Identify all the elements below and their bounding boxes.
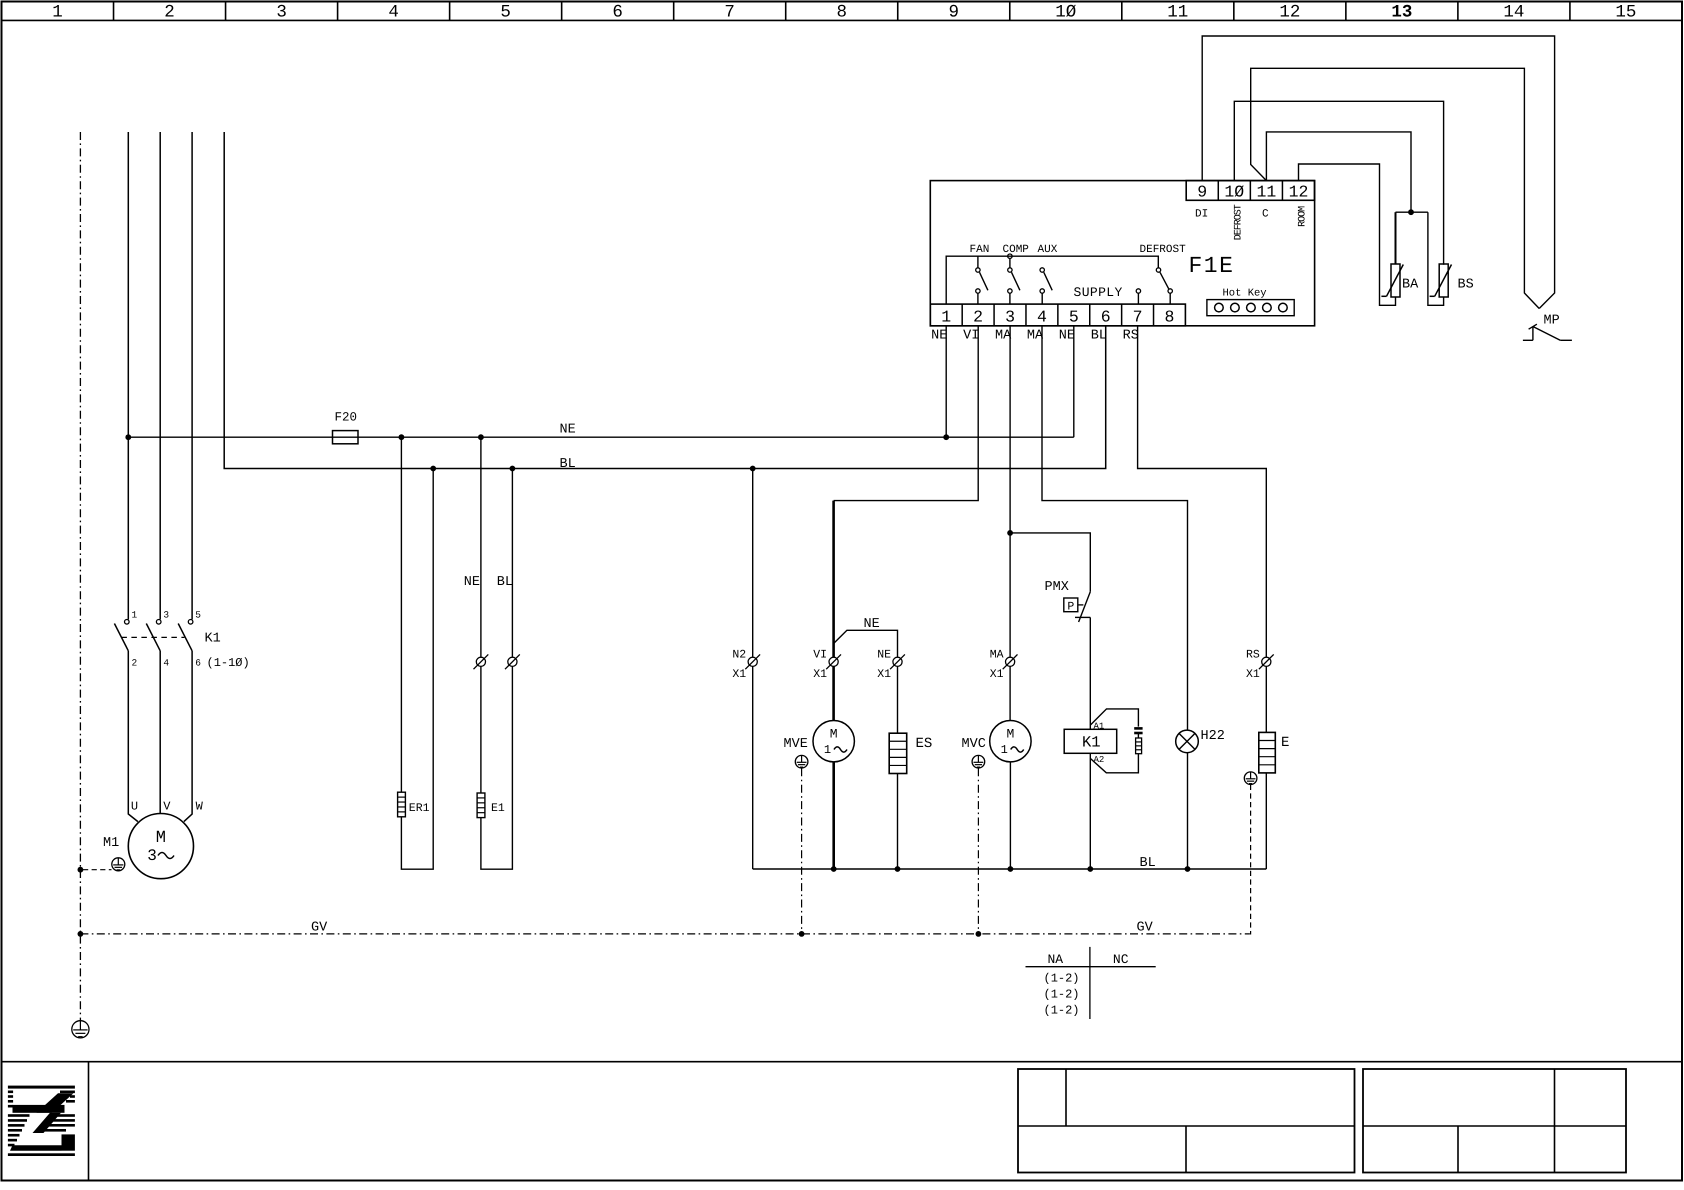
svg-text:3: 3 bbox=[1005, 308, 1015, 327]
terminal strip 9-12 bbox=[1186, 181, 1314, 202]
wire MVE to BL bus bbox=[832, 762, 835, 869]
wire terminal7 RS bbox=[1138, 326, 1267, 733]
svg-text:AUX: AUX bbox=[1038, 244, 1058, 256]
svg-text:ER1: ER1 bbox=[409, 802, 430, 815]
probe BS (NTC) bbox=[1430, 264, 1452, 297]
svg-text:2: 2 bbox=[973, 308, 983, 327]
svg-text:BL: BL bbox=[1140, 856, 1156, 871]
svg-text:7: 7 bbox=[1133, 308, 1143, 327]
svg-text:1: 1 bbox=[1001, 743, 1008, 757]
wire L3 to motor W bbox=[184, 651, 192, 822]
company logo bbox=[8, 1086, 75, 1156]
wire terminal4 MA to H22 bbox=[1042, 326, 1188, 730]
heater ER1 bbox=[398, 792, 406, 817]
svg-text:MP: MP bbox=[1544, 314, 1560, 329]
svg-text:NE: NE bbox=[1059, 329, 1075, 344]
svg-text:BL: BL bbox=[560, 457, 576, 472]
ground M1 PE bbox=[112, 858, 125, 871]
svg-text:W: W bbox=[196, 800, 204, 814]
svg-text:12: 12 bbox=[1279, 3, 1300, 23]
svg-text:NE: NE bbox=[464, 575, 480, 590]
ground MVC PE bbox=[972, 755, 985, 768]
wire MVC PE to GV bbox=[977, 768, 979, 934]
svg-text:V: V bbox=[163, 800, 171, 814]
wire NE branch to ES bbox=[834, 630, 898, 657]
wire snubber top bbox=[1090, 709, 1138, 727]
wire internal supply feed bbox=[946, 256, 1158, 304]
svg-text:1Ø: 1Ø bbox=[1055, 3, 1076, 23]
coil K1 bbox=[1064, 729, 1117, 753]
svg-text:NC: NC bbox=[1113, 952, 1129, 967]
svg-text:(1-1Ø): (1-1Ø) bbox=[207, 656, 250, 670]
contactor K1 main contacts bbox=[114, 610, 201, 669]
wire common to BS bottom bbox=[1428, 212, 1444, 305]
wire terminal2 VI bbox=[834, 326, 979, 501]
svg-text:U: U bbox=[131, 800, 138, 814]
svg-text:6: 6 bbox=[1101, 308, 1111, 327]
motor M1 3-phase bbox=[128, 814, 193, 879]
wire PMX branch bbox=[1010, 533, 1090, 592]
heater E bbox=[1259, 732, 1276, 773]
svg-text:SUPPLY: SUPPLY bbox=[1074, 285, 1123, 300]
heater E1 bbox=[477, 793, 485, 818]
svg-text:A1: A1 bbox=[1094, 722, 1105, 732]
svg-text:X1: X1 bbox=[813, 668, 827, 681]
connector BL/E1 bbox=[505, 654, 520, 669]
svg-text:VI: VI bbox=[813, 648, 827, 661]
wire terminal1 NE bbox=[945, 326, 947, 437]
wire M1 PE link bbox=[83, 869, 112, 871]
wire K1 coil to BL bus bbox=[1089, 753, 1091, 869]
svg-text:1: 1 bbox=[941, 308, 951, 327]
wire C (terminal 11 to probe common) bbox=[1266, 132, 1411, 212]
wire MVC to BL bus bbox=[1009, 762, 1011, 869]
svg-text:M1: M1 bbox=[103, 836, 119, 851]
svg-text:RS: RS bbox=[1246, 648, 1260, 661]
wire ER1 branch bbox=[399, 434, 405, 440]
wire C (terminal 11 to MP) bbox=[1251, 68, 1540, 308]
svg-text:BL: BL bbox=[497, 575, 513, 590]
svg-text:C: C bbox=[1262, 208, 1269, 220]
svg-text:1: 1 bbox=[52, 3, 63, 23]
relay contact FAN bbox=[976, 256, 988, 304]
svg-text:8: 8 bbox=[836, 3, 847, 23]
lamp H22 bbox=[1176, 730, 1199, 753]
svg-text:NE: NE bbox=[560, 423, 576, 438]
svg-text:PMX: PMX bbox=[1045, 580, 1069, 595]
svg-text:5: 5 bbox=[1069, 308, 1079, 327]
terminal strip 1-8 bbox=[930, 304, 1185, 326]
wire ES to BL bus bbox=[897, 774, 899, 870]
motor MVC bbox=[990, 721, 1031, 762]
connector VI bbox=[813, 648, 841, 681]
wire PMX to K1 coil bbox=[1089, 617, 1091, 729]
wire phase L1 bbox=[127, 132, 129, 619]
svg-text:4: 4 bbox=[163, 657, 169, 668]
wire E1 branch bbox=[478, 434, 484, 440]
connector RS bbox=[1246, 648, 1274, 681]
svg-text:GV: GV bbox=[1137, 921, 1154, 936]
ground MVE PE bbox=[795, 755, 808, 768]
svg-text:ROOM: ROOM bbox=[1298, 206, 1309, 227]
svg-text:NE: NE bbox=[864, 617, 880, 632]
svg-text:N2: N2 bbox=[732, 648, 746, 661]
wire terminal5 NE bbox=[1073, 326, 1075, 437]
wire DI (terminal 9 to MP) bbox=[1202, 36, 1554, 309]
wire NE bus bbox=[128, 436, 1074, 438]
svg-text:15: 15 bbox=[1615, 3, 1636, 23]
wire terminal3 MA bbox=[1009, 326, 1011, 657]
ground PE main bbox=[72, 1021, 89, 1038]
svg-text:GV: GV bbox=[311, 921, 328, 936]
svg-text:7: 7 bbox=[724, 3, 735, 23]
svg-text:X1: X1 bbox=[732, 668, 746, 681]
svg-text:6: 6 bbox=[612, 3, 623, 23]
wire ROOM (terminal 12 to BA) bbox=[1299, 164, 1396, 305]
svg-text:9: 9 bbox=[948, 3, 959, 23]
svg-text:1: 1 bbox=[132, 610, 138, 621]
connector N2 bbox=[732, 648, 760, 681]
switch MP (door microswitch) bbox=[1523, 324, 1572, 340]
svg-text:NA: NA bbox=[1048, 952, 1064, 967]
svg-text:NE: NE bbox=[931, 329, 947, 344]
svg-text:BL: BL bbox=[1091, 329, 1107, 344]
node probe common junction bbox=[1408, 209, 1414, 215]
svg-text:3: 3 bbox=[163, 610, 169, 621]
svg-text:Hot Key: Hot Key bbox=[1223, 288, 1267, 300]
wire PE dash-dot riser bbox=[79, 132, 81, 1021]
svg-text:13: 13 bbox=[1391, 3, 1412, 23]
svg-text:5: 5 bbox=[195, 610, 201, 621]
svg-text:M: M bbox=[1006, 727, 1014, 742]
svg-text:COMP: COMP bbox=[1003, 244, 1030, 256]
connector NE/ES bbox=[877, 648, 905, 681]
svg-text:12: 12 bbox=[1289, 183, 1309, 202]
svg-text:P: P bbox=[1067, 600, 1074, 613]
controller F1E box bbox=[930, 181, 1314, 326]
wire snubber bottom bbox=[1090, 754, 1138, 773]
svg-text:BS: BS bbox=[1458, 278, 1474, 293]
svg-text:6: 6 bbox=[195, 657, 201, 668]
svg-text:MVE: MVE bbox=[784, 737, 808, 752]
svg-text:DI: DI bbox=[1195, 208, 1208, 220]
svg-text:F20: F20 bbox=[335, 411, 358, 425]
wire N (4th riser to BL bus) bbox=[224, 132, 1105, 469]
svg-text:MA: MA bbox=[990, 648, 1004, 661]
svg-text:M: M bbox=[830, 727, 838, 742]
svg-text:X1: X1 bbox=[1246, 668, 1260, 681]
svg-text:E: E bbox=[1281, 735, 1289, 751]
labels under terminals bbox=[931, 329, 1139, 344]
svg-text:FAN: FAN bbox=[970, 244, 990, 256]
svg-text:X1: X1 bbox=[877, 668, 891, 681]
resistor snubber bbox=[1136, 733, 1142, 754]
relay contact DEFROST bbox=[1136, 268, 1172, 304]
svg-text:14: 14 bbox=[1503, 3, 1524, 23]
svg-text:4: 4 bbox=[1037, 308, 1047, 327]
capacitor snubber bbox=[1134, 728, 1142, 733]
wire GV bus bbox=[80, 933, 1249, 935]
wire L2 to motor V bbox=[159, 651, 161, 814]
svg-text:ES: ES bbox=[916, 736, 933, 752]
pressure switch PMX bbox=[1064, 592, 1091, 622]
svg-text:K1: K1 bbox=[205, 632, 221, 647]
svg-text:MVC: MVC bbox=[962, 737, 986, 752]
wire BL bottom bus bbox=[753, 868, 1267, 870]
svg-text:F1E: F1E bbox=[1189, 253, 1235, 279]
Hot Key button panel bbox=[1207, 300, 1294, 316]
svg-text:VI: VI bbox=[963, 329, 979, 344]
svg-text:9: 9 bbox=[1197, 183, 1207, 202]
svg-text:X1: X1 bbox=[990, 668, 1004, 681]
wire DEFROST (terminal 10 to BS) bbox=[1234, 101, 1443, 264]
svg-text:2: 2 bbox=[132, 657, 138, 668]
svg-text:K1: K1 bbox=[1082, 734, 1101, 752]
auxiliary contact table NA/NC bbox=[1026, 947, 1156, 1019]
svg-text:M: M bbox=[156, 829, 166, 848]
wire N2 branch bbox=[750, 466, 756, 472]
svg-text:(1-2): (1-2) bbox=[1044, 971, 1080, 985]
relay contact COMP bbox=[1008, 254, 1020, 304]
heater ES bbox=[889, 733, 907, 773]
relay contact AUX bbox=[1040, 268, 1052, 304]
wire L1 to motor U bbox=[128, 651, 138, 822]
svg-text:BA: BA bbox=[1402, 278, 1419, 293]
svg-text:E1: E1 bbox=[491, 802, 505, 815]
fuse F20 bbox=[333, 431, 359, 444]
wire phase L3 bbox=[191, 132, 193, 619]
svg-text:NE: NE bbox=[877, 648, 891, 661]
motor MVE bbox=[813, 721, 854, 762]
svg-text:(1-2): (1-2) bbox=[1044, 987, 1080, 1001]
svg-text:3: 3 bbox=[276, 3, 287, 23]
wire common to BA top bbox=[1395, 212, 1397, 264]
wire ES riser bbox=[897, 666, 899, 733]
wire MVE PE to GV bbox=[801, 768, 803, 934]
svg-text:DEFROST: DEFROST bbox=[1234, 204, 1245, 240]
wire H22 to BL bus bbox=[1187, 753, 1189, 869]
svg-text:8: 8 bbox=[1165, 308, 1175, 327]
svg-text:5: 5 bbox=[500, 3, 511, 23]
wire phase L2 bbox=[159, 132, 161, 619]
connector NE/E1 bbox=[474, 654, 489, 669]
svg-text:RS: RS bbox=[1123, 329, 1139, 344]
svg-text:4: 4 bbox=[388, 3, 399, 23]
svg-text:1Ø: 1Ø bbox=[1224, 183, 1244, 202]
svg-text:H22: H22 bbox=[1201, 729, 1225, 744]
svg-text:11: 11 bbox=[1256, 183, 1276, 202]
svg-text:11: 11 bbox=[1167, 3, 1188, 23]
svg-text:2: 2 bbox=[164, 3, 175, 23]
svg-text:1: 1 bbox=[824, 743, 831, 757]
wire VI riser (bold) bbox=[832, 501, 835, 658]
ground E PE bbox=[1244, 772, 1257, 785]
svg-text:3: 3 bbox=[147, 847, 157, 865]
probe BA (NTC) bbox=[1381, 264, 1403, 297]
wire E PE to GV bbox=[1249, 785, 1250, 934]
connector MA bbox=[990, 648, 1018, 681]
svg-text:DEFROST: DEFROST bbox=[1140, 244, 1187, 256]
svg-text:(1-2): (1-2) bbox=[1044, 1004, 1080, 1018]
node MA/PMX junction bbox=[1007, 530, 1013, 536]
wire E to BL bus bbox=[1265, 773, 1267, 869]
